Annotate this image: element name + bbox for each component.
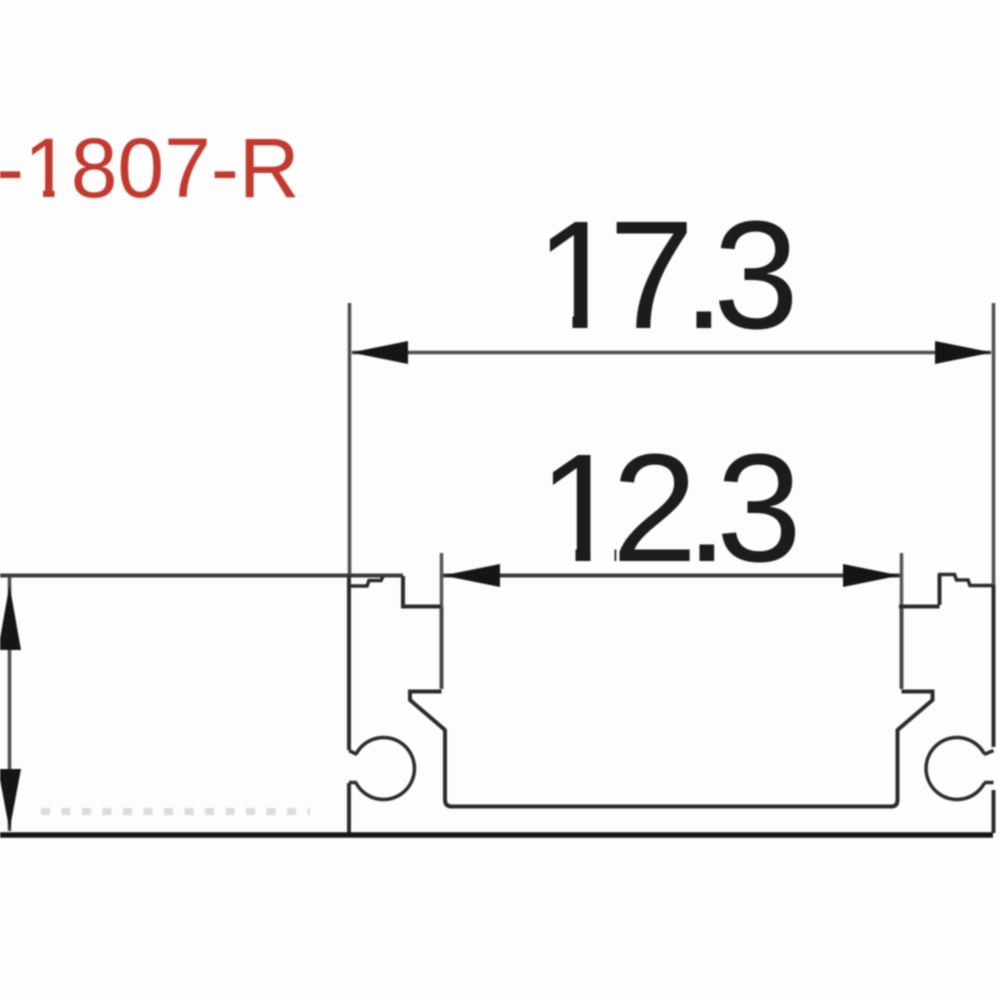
profile right retention notch bbox=[898, 692, 933, 731]
profile cavity floor bbox=[450, 805, 893, 809]
profile right outer wall (with slot gap) bbox=[992, 585, 996, 833]
profile right lower inner wall bbox=[891, 729, 898, 807]
slot connector right bottom bbox=[984, 781, 994, 785]
profile right lip step bbox=[899, 574, 940, 607]
dimension line 12.3 bbox=[442, 574, 902, 578]
svg-text:17.3: 17.3 bbox=[535, 189, 792, 361]
profile left lip step bbox=[401, 576, 441, 607]
svg-text:-1807-R: -1807-R bbox=[0, 121, 299, 215]
profile left outer wall (with slot gap) bbox=[347, 576, 351, 833]
extension line 12.3 right (inner wall extended up) bbox=[900, 553, 904, 610]
profile left retention notch bbox=[410, 692, 445, 731]
arrow 12.3 left bbox=[443, 564, 500, 587]
faint artifact dashes above bottom edge bbox=[41, 808, 310, 815]
extension line 17.3 right bbox=[992, 303, 996, 585]
profile left lip top edge bbox=[351, 577, 383, 587]
height dimension line (left, number cropped out) bbox=[8, 577, 12, 831]
arrow height top (points up) bbox=[0, 585, 21, 650]
slot connector left bottom bbox=[349, 781, 357, 785]
extension line 17.3 left bbox=[348, 303, 352, 576]
svg-text:12.3: 12.3 bbox=[538, 422, 795, 594]
arrow height bottom (points down) bbox=[0, 769, 21, 830]
reference line top (left height datum, merges into lip ridge) bbox=[0, 574, 403, 578]
profile left lower inner wall bbox=[445, 729, 452, 807]
extension line 12.3 left (inner wall extended up) bbox=[440, 553, 444, 610]
screw slot circle left bbox=[356, 737, 414, 799]
profile right inner wall bbox=[900, 607, 904, 689]
slot connector left top bbox=[349, 751, 357, 755]
serif masks to mimic Arial-style "1" glyphs bbox=[28, 190, 43, 200]
profile left inner wall bbox=[440, 607, 444, 689]
arrow 17.3 left bbox=[351, 341, 408, 364]
profile right lip top edge bbox=[938, 575, 992, 586]
dimension line 17.3 bbox=[352, 351, 991, 355]
arrow 17.3 right bbox=[935, 341, 992, 364]
slot connector right top bbox=[984, 751, 994, 755]
screw slot circle right bbox=[926, 738, 984, 800]
arrow 12.3 right bbox=[843, 564, 900, 587]
profile bottom edge (merges with left datum line) bbox=[0, 832, 993, 838]
